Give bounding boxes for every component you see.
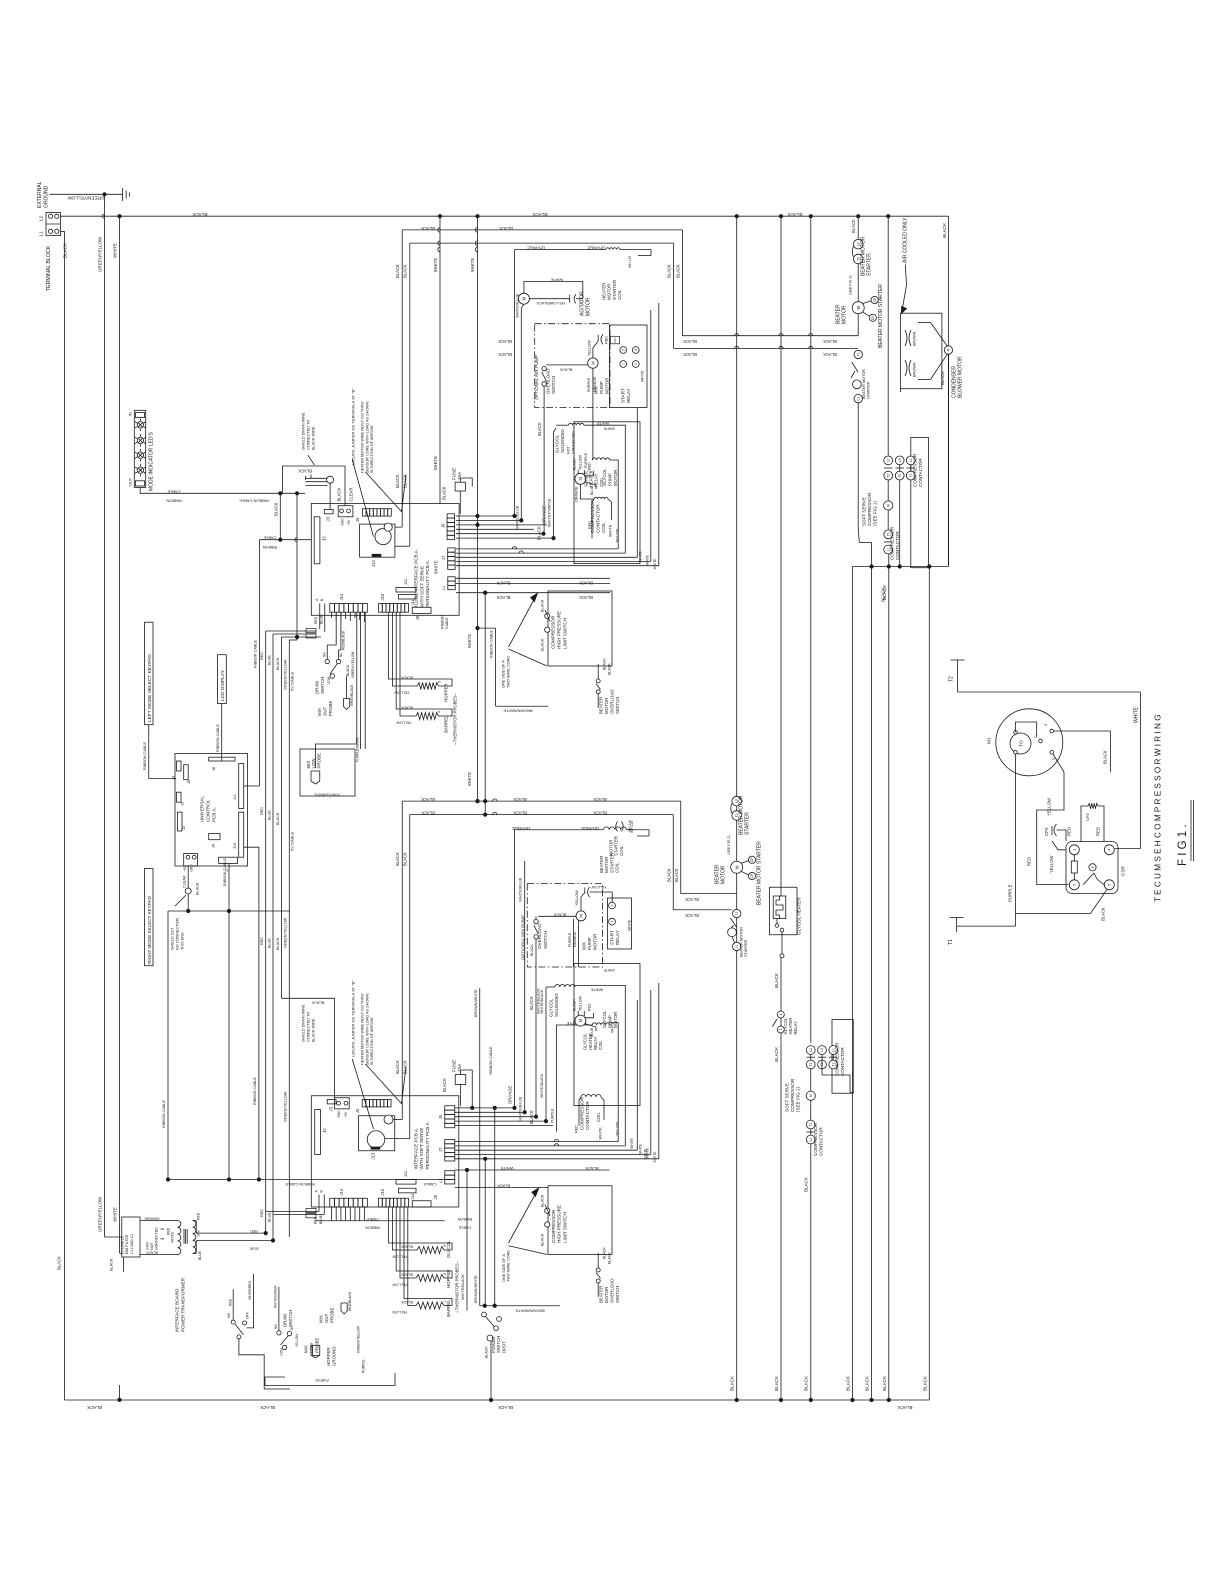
svg-text:T1: T1 (735, 911, 739, 915)
svg-text:RED: RED (250, 1229, 258, 1233)
svg-text:BLACK: BLACK (513, 797, 527, 802)
thermistor res 4 upper (396, 612, 452, 724)
svg-text:BLACK: BLACK (537, 422, 542, 436)
svg-text:CP2: CP2 (1044, 827, 1049, 836)
beater starter T1 (854, 350, 862, 358)
svg-text:CLEAR: CLEAR (349, 488, 354, 502)
glycol heater label (797, 897, 802, 935)
led 2 (135, 434, 146, 447)
junction top rail x858.2 (857, 215, 860, 218)
draw switch upper (315, 652, 343, 694)
wire limit sw link upper (476, 627, 496, 630)
junction ground/green-yellow (103, 193, 106, 196)
svg-text:BLACK: BLACK (395, 474, 400, 488)
junction top rail white tap (118, 215, 121, 218)
wire long vert x929.3 (922, 567, 929, 1400)
svg-text:T E C U M S E H C O M P R E S: T E C U M S E H C O M P R E S S O R W I … (1154, 714, 1163, 902)
svg-text:MOTOR: MOTOR (613, 1012, 618, 1028)
pcb upper J9 bar (412, 607, 431, 620)
pcb lower J2 bar (315, 1110, 327, 1155)
csr terminal 4 (1104, 845, 1114, 855)
svg-text:COMPRESSOR: COMPRESSOR (913, 453, 918, 487)
svg-text:PROBE: PROBE (328, 701, 333, 716)
wire ribbon x297 (296, 493, 298, 640)
pcb upper clear circle (327, 476, 354, 501)
junction top x440 (438, 215, 441, 218)
svg-text:J8: J8 (212, 767, 216, 771)
svg-text:CONTACTOR: CONTACTOR (585, 1101, 590, 1130)
label L2 (39, 215, 45, 221)
svg-text:BLACK WIRE: BLACK WIRE (311, 1018, 315, 1042)
svg-text:CABLE: CABLE (167, 489, 180, 494)
svg-text:WHITE: WHITE (590, 988, 603, 992)
svg-text:RED: RED (260, 1209, 264, 1217)
svg-text:CABLE: CABLE (366, 1217, 379, 1221)
thermistor res 2 lower (392, 1273, 447, 1287)
starter L1 lower (732, 937, 741, 951)
junction bus x871.5 (870, 565, 873, 568)
wire fuse upper (434, 478, 473, 574)
svg-text:WHITE: WHITE (645, 554, 649, 566)
svg-text:MIX: MIX (319, 1315, 324, 1323)
svg-text:CONNECTED: CONNECTED (571, 431, 575, 454)
svg-text:RED: RED (260, 807, 264, 815)
svg-text:BLACK: BLACK (276, 937, 280, 950)
svg-text:RIBBON CABLE: RIBBON CABLE (253, 1076, 257, 1105)
svg-text:OVERLOAD: OVERLOAD (610, 690, 615, 714)
svg-text:SOFT SERVE: SOFT SERVE (861, 497, 866, 526)
svg-text:NOT: NOT (567, 446, 571, 454)
svg-text:J3: J3 (328, 1106, 333, 1111)
hopper ground lower (313, 1346, 337, 1367)
svg-text:J11: J11 (410, 599, 415, 606)
svg-text:BLACK: BLACK (593, 811, 607, 816)
wire brownwhite horiz (480, 1304, 560, 1313)
svg-text:WH 115: WH 115 (628, 256, 632, 268)
svg-text:BLACK: BLACK (513, 811, 527, 816)
svg-text:L2: L2 (886, 458, 890, 462)
svg-text:GREEN/YELLOW: GREEN/YELLOW (67, 196, 104, 201)
svg-text:GREEN/YELLOW: GREEN/YELLOW (284, 1091, 288, 1122)
svg-text:WHITE: WHITE (500, 1166, 513, 1171)
svg-text:3: 3 (610, 921, 614, 923)
svg-text:L3: L3 (898, 458, 902, 462)
svg-text:BLACK: BLACK (774, 1375, 779, 1391)
glycol relay 3 (777, 1026, 784, 1033)
wire contactor drops upper (898, 480, 901, 568)
svg-text:RED: RED (196, 1212, 200, 1220)
svg-text:BLACK: BLACK (63, 242, 68, 258)
svg-text:HEATER MOTOR WIRE MUST GO THRU: HEATER MOTOR WIRE MUST GO THRU (361, 401, 365, 473)
svg-text:CP3: CP3 (1085, 812, 1090, 821)
svg-text:J2: J2 (182, 826, 186, 830)
svg-text:BLACK: BLACK (485, 1346, 489, 1358)
svg-text:RIBBON CABLE: RIBBON CABLE (216, 723, 220, 752)
svg-text:T2: T2 (809, 1062, 813, 1066)
svg-text:WHITE: WHITE (550, 277, 563, 281)
svg-text:BLACK: BLACK (529, 1110, 534, 1124)
svg-text:WHITE: WHITE (653, 1151, 657, 1163)
svg-text:BLACK: BLACK (683, 339, 697, 344)
svg-text:15A: 15A (457, 1063, 462, 1072)
agitator motor M (518, 293, 529, 304)
wire lcd ribbon (216, 704, 222, 758)
svg-text:SENSOR CORE WITH LOAD AS SHOWN: SENSOR CORE WITH LOAD AS SHOWN (365, 993, 369, 1065)
svg-text:WHITE: WHITE (171, 1231, 175, 1243)
svg-text:BLACK: BLACK (685, 897, 699, 902)
agitator rail (524, 277, 583, 298)
glycol pump motor lower (572, 995, 617, 1037)
svg-text:BEATER: BEATER (599, 697, 604, 714)
wire ribbon x495 upper (490, 628, 549, 713)
blower winding arcs (905, 330, 917, 377)
svg-text:--THERMISTOR PROBES--: --THERMISTOR PROBES-- (453, 693, 458, 745)
hop feedA x494 (493, 799, 497, 801)
junction j6 x477 b (476, 523, 479, 526)
svg-text:WHITE: WHITE (113, 243, 118, 258)
svg-text:WHITE: WHITE (467, 772, 472, 786)
svg-text:TO: TO (1018, 740, 1023, 747)
svg-text:BLACK: BLACK (537, 526, 542, 540)
contactor bars lower (807, 1056, 838, 1058)
svg-text:GLYCOL HEATER: GLYCOL HEATER (797, 897, 802, 935)
svg-text:SWITCH: SWITCH (615, 1286, 620, 1303)
svg-text:BLACK: BLACK (395, 1060, 400, 1074)
svg-text:BLACK: BLACK (823, 339, 837, 344)
svg-text:GREEN/YELLOW: GREEN/YELLOW (284, 659, 288, 690)
glycol heater pin (780, 935, 784, 958)
svg-text:COMPRESSOR: COMPRESSOR (551, 1209, 556, 1243)
svg-text:GLYCOL: GLYCOL (602, 1010, 607, 1028)
wire brownwhite lower (474, 988, 480, 1306)
svg-text:BLACK: BLACK (192, 212, 208, 217)
svg-text:3: 3 (1044, 724, 1048, 726)
svg-text:RIBBON CABLE: RIBBON CABLE (490, 629, 494, 658)
svg-text:J9: J9 (433, 1194, 438, 1199)
svg-text:BLACK: BLACK (922, 1375, 927, 1391)
csr internal link (1016, 722, 1037, 737)
wire whiteblack x467 (461, 1168, 469, 1310)
condenser blower label (952, 356, 964, 398)
svg-text:YELLOW/BLACK: YELLOW/BLACK (536, 301, 566, 305)
svg-text:COMPRESSOR: COMPRESSOR (834, 1042, 839, 1076)
svg-text:RIBBON CABLE: RIBBON CABLE (162, 1099, 166, 1128)
beater overload label upper (596, 658, 620, 714)
shield drain note lower (302, 1004, 316, 1042)
wire white lower (455, 1166, 610, 1171)
svg-text:TWO WIRE CORD: TWO WIRE CORD (507, 1250, 511, 1282)
svg-text:BLACK: BLACK (593, 797, 607, 802)
universal J10 bar (233, 812, 244, 857)
svg-text:--THERMISTOR PROBES--: --THERMISTOR PROBES-- (455, 1261, 460, 1313)
svg-text:RED: RED (588, 521, 592, 529)
riser black lower (529, 939, 536, 1124)
svg-text:ORANGE: ORANGE (144, 1217, 160, 1221)
hp limit contacts lower (541, 1194, 551, 1246)
svg-text:BEATER MOTOR STARTER: BEATER MOTOR STARTER (757, 841, 763, 905)
hop feedA x810.8 (809, 334, 813, 336)
svg-text:BLACK: BLACK (846, 1375, 851, 1391)
svg-text:4: 4 (634, 349, 638, 351)
csr TO pins (1014, 731, 1018, 755)
blower fan lines (918, 323, 948, 380)
svg-text:BLACK: BLACK (346, 664, 350, 676)
svg-text:WHITE: WHITE (599, 1127, 603, 1140)
starter label lower 3 (740, 927, 749, 957)
svg-text:INTERFACE PCB A.: INTERFACE PCB A. (413, 1128, 418, 1170)
riser black upper mid (537, 386, 545, 540)
svg-text:L1 LINE L2: L1 LINE L2 (120, 1236, 124, 1254)
wire long vert x810.8 (804, 216, 811, 1391)
svg-text:CABLE: CABLE (423, 1182, 436, 1187)
wire draw sw feeds (327, 612, 350, 676)
svg-text:J2: J2 (321, 536, 326, 541)
wire x888 upper (887, 216, 889, 456)
glycol relay coil upper (583, 452, 610, 487)
csr label M1 (987, 737, 993, 744)
svg-text:240V: 240V (146, 1241, 150, 1250)
svg-text:WHITE: WHITE (639, 1143, 643, 1155)
wire ab red blue lower (266, 1207, 325, 1224)
pcb upper J14 row (330, 593, 368, 612)
pcb lower J1 conn (335, 1098, 350, 1118)
pcb upper J7 col (441, 548, 455, 569)
svg-text:WHITE: WHITE (653, 558, 657, 570)
beater starter L1 upper (854, 394, 862, 402)
wire j7 pins lower (455, 1139, 659, 1158)
svg-text:2: 2 (621, 349, 625, 351)
svg-text:BLACK: BLACK (1100, 907, 1105, 921)
pcb upper J8 row (355, 509, 391, 522)
wire j11 ribbon (244, 785, 260, 787)
svg-text:RED/BLACK: RED/BLACK (348, 1291, 352, 1311)
wire x485 upper (484, 591, 487, 814)
csr start cap loop (1081, 803, 1104, 841)
svg-text:M: M (856, 306, 861, 310)
svg-text:SHIELD DRAIN WIRE: SHIELD DRAIN WIRE (302, 1004, 306, 1042)
junction led ribbon a (279, 492, 282, 495)
svg-text:L1: L1 (735, 945, 739, 949)
svg-text:PERSONALITY PCB A.: PERSONALITY PCB A. (425, 560, 430, 608)
svg-text:ONE SIDE OF A: ONE SIDE OF A (502, 660, 506, 688)
svg-text:CP: CP (750, 873, 754, 878)
svg-text:POWER TRANSFORMER: POWER TRANSFORMER (180, 1277, 185, 1332)
contactor label lower 2 (813, 1122, 824, 1156)
svg-text:J6: J6 (438, 1114, 443, 1119)
mix pump wires upper (544, 341, 598, 460)
T1 marker (948, 918, 964, 946)
hp limit label lower (551, 1205, 568, 1243)
contactor bar2 upper (884, 541, 893, 543)
pcb lower J14 row (330, 1188, 368, 1207)
svg-text:ONE SIDE OF A: ONE SIDE OF A (502, 1254, 506, 1282)
wire j6 pins lower (455, 1106, 553, 1125)
svg-text:YELLOW: YELLOW (295, 1334, 299, 1347)
wire long vert x781 lower (774, 956, 781, 1400)
svg-text:YELLOW: YELLOW (575, 890, 579, 906)
svg-text:T3: T3 (898, 474, 902, 478)
csr label yellow2 (1049, 855, 1054, 873)
wire led ribbon (140, 488, 305, 504)
svg-text:WHITE: WHITE (628, 919, 632, 931)
svg-text:J13: J13 (371, 1152, 376, 1159)
svg-text:BLACK: BLACK (607, 663, 611, 675)
svg-text:STARTER: STARTER (744, 939, 748, 957)
svg-text:BLACK: BLACK (804, 1375, 809, 1391)
svg-text:BLUE: BLUE (267, 1212, 271, 1222)
junction top rail x888.2 (887, 215, 890, 218)
wire long vert x852.5 (846, 567, 853, 1401)
optional mix pump box upper (535, 324, 610, 408)
svg-text:(SEE FIG 1): (SEE FIG 1) (873, 501, 878, 526)
starter T2 lower (732, 811, 742, 821)
wire motor diag lower (741, 861, 749, 875)
beater overload contact (851, 362, 861, 389)
svg-text:OFF: OFF (246, 1312, 250, 1319)
svg-text:MIX: MIX (304, 1345, 309, 1353)
universal J11 bar (233, 764, 244, 809)
nested corner verticals upper (637, 303, 659, 570)
svg-text:BLACK: BLACK (666, 868, 671, 882)
svg-text:BLUE: BLUE (267, 810, 271, 820)
svg-text:J5: J5 (355, 1108, 360, 1113)
svg-text:BLACK: BLACK (529, 996, 534, 1010)
csr fuse element (1071, 855, 1077, 880)
svg-text:BLACK: BLACK (553, 912, 566, 916)
pcb upper J1 conn (338, 506, 353, 526)
svg-text:BLACK: BLACK (402, 474, 407, 488)
hop feedB x494 (493, 812, 497, 814)
air cooled only label (903, 217, 909, 263)
sensor core leader (365, 472, 406, 512)
svg-text:OUT: OUT (322, 706, 327, 716)
shield cut note (171, 917, 185, 950)
svg-text:GLYCOL: GLYCOL (548, 998, 553, 1017)
svg-text:SOLENOID: SOLENOID (554, 993, 559, 1017)
pcb upper J14 AB pins (315, 598, 325, 612)
pcb lower J8 row (355, 1100, 391, 1114)
svg-text:PURPLE: PURPLE (587, 377, 591, 392)
svg-text:M: M (947, 348, 951, 351)
svg-text:BLACK: BLACK (395, 264, 400, 278)
glycol relay blade (773, 1019, 778, 1027)
svg-text:MOTOR: MOTOR (613, 470, 618, 486)
transformer secondary (193, 1212, 202, 1260)
beater motor starter label 2 (878, 284, 884, 348)
svg-text:NO: NO (322, 652, 326, 657)
svg-text:CLEAR: CLEAR (183, 875, 187, 888)
wire xfmr secondary out (196, 1229, 274, 1250)
csr thermal overload TO (1010, 733, 1031, 754)
svg-text:RELAY: RELAY (626, 388, 631, 403)
svg-text:PUMP: PUMP (607, 1015, 612, 1028)
svg-text:BROWN/WHITE: BROWN/WHITE (515, 1309, 545, 1314)
svg-text:WITH SOFT SERVE: WITH SOFT SERVE (419, 566, 424, 608)
svg-text:BLACK: BLACK (442, 486, 447, 500)
universal J7 bar (219, 857, 238, 872)
svg-text:PURPLE: PURPLE (551, 1108, 555, 1123)
svg-text:(SEE FIG 2): (SEE FIG 2) (727, 835, 731, 855)
csr terminal 5 (1104, 880, 1114, 890)
wire emi to xfmr (140, 1221, 176, 1255)
cord leader lower (509, 1188, 548, 1254)
svg-text:CONNECTED TO: CONNECTED TO (307, 420, 311, 450)
glycol pump motor upper (572, 454, 617, 495)
led 3 (135, 449, 146, 462)
svg-text:TWO WIRE CORD: TWO WIRE CORD (507, 656, 511, 688)
svg-text:BLACK: BLACK (259, 1405, 275, 1410)
svg-text:SOFT SERVE: SOFT SERVE (784, 1083, 789, 1112)
svg-text:PURPLE: PURPLE (362, 1359, 366, 1373)
svg-text:BLACK: BLACK (851, 219, 856, 233)
svg-text:PURPLE/WHITE: PURPLE/WHITE (314, 793, 340, 797)
emi labels (110, 1217, 160, 1273)
svg-text:BLACK: BLACK (774, 1046, 779, 1062)
svg-text:LOCATE JUMPER ON TERMINALS AT: LOCATE JUMPER ON TERMINALS AT "B" (351, 388, 356, 465)
svg-text:LCD DISPLAY: LCD DISPLAY (220, 669, 226, 701)
contactor L2 upper (884, 456, 893, 465)
svg-text:OVERLOAD: OVERLOAD (610, 1279, 615, 1303)
svg-text:YELLOW: YELLOW (1047, 797, 1052, 816)
csr label CSR (1121, 866, 1126, 876)
soft serve compressor label upper (861, 492, 877, 526)
contactor T2 upper (884, 471, 893, 480)
thermistor res 3 lower (392, 1245, 447, 1259)
svg-text:M1: M1 (987, 737, 993, 744)
svg-text:RED: RED (260, 652, 264, 660)
svg-text:PCB A.: PCB A. (211, 807, 216, 822)
svg-text:BLACK: BLACK (421, 797, 435, 802)
svg-text:CONNECTED: CONNECTED (155, 1227, 159, 1250)
svg-text:T2: T2 (949, 676, 955, 682)
svg-text:OUT: OUT (129, 477, 133, 486)
hop feedA x781 (779, 334, 783, 336)
contactor L1 lower (806, 1135, 815, 1144)
junction feedB x485 (484, 813, 487, 816)
svg-text:BLACK: BLACK (730, 1375, 735, 1391)
riser whitepurple upper (548, 428, 557, 538)
wire long vert x736.7 (730, 216, 737, 1400)
wire white x477 (467, 216, 478, 801)
svg-text:COIL: COIL (617, 289, 622, 300)
svg-text:HIGH PRESSURE: HIGH PRESSURE (557, 611, 562, 649)
contactor T1 circ upper (884, 510, 893, 539)
svg-text:YELLOW: YELLOW (392, 1255, 408, 1259)
motor starter coil upper (602, 256, 633, 300)
pcb upper L1L2 col (442, 577, 455, 590)
svg-text:YELLOW: YELLOW (579, 454, 583, 470)
svg-text:L1: L1 (856, 397, 860, 401)
svg-text:WHITE: WHITE (603, 427, 615, 431)
mix pump label upper (534, 355, 539, 400)
hop green-yellow over top rail (102, 214, 104, 218)
wire long vert x781 upper (780, 216, 782, 896)
svg-text:HOPPER: HOPPER (444, 683, 449, 702)
pcb upper relay (360, 523, 395, 567)
svg-text:4: 4 (779, 1013, 783, 1015)
svg-text:BLACK: BLACK (823, 352, 837, 357)
svg-text:BLUE: BLUE (267, 655, 271, 665)
svg-text:BLOWER MOTOR: BLOWER MOTOR (958, 356, 964, 398)
heater sensor note lower (361, 993, 375, 1065)
svg-text:PURPLE: PURPLE (568, 932, 572, 947)
starter label lower 2 (757, 841, 763, 905)
start relay box lower (608, 898, 632, 949)
sensor core leader lower (365, 1064, 406, 1104)
contactor T3 upper (895, 471, 904, 480)
hop feedB x810.8 (809, 346, 813, 348)
ribbon label j12 (441, 615, 449, 629)
